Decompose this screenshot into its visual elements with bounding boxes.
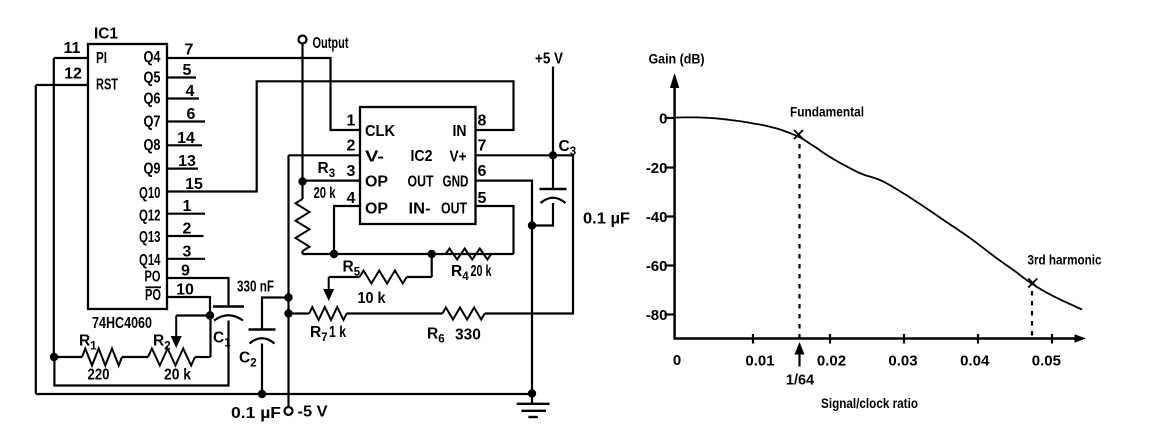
- wire R7 left lead: [289, 312, 310, 314]
- wire IC2 pin2 V- to rail: [289, 154, 361, 156]
- svg-text:Q14: Q14: [139, 252, 161, 269]
- capacitor C3: [540, 188, 567, 191]
- svg-text:3: 3: [183, 243, 192, 260]
- svg-text:OP: OP: [365, 201, 388, 218]
- R2 wiper arrow: [175, 316, 177, 338]
- fundamental X marker: [794, 130, 803, 139]
- svg-text:3: 3: [570, 146, 576, 158]
- 1/64 arrow: [798, 353, 800, 367]
- svg-text:0: 0: [673, 352, 681, 369]
- gain response curve: [675, 117, 1082, 309]
- y tick -80: [665, 313, 676, 315]
- wire C1 bottom loop to R1: [54, 321, 228, 386]
- wire C2 bottom: [261, 344, 263, 395]
- svg-text:IC1: IC1: [94, 26, 118, 43]
- svg-text:6: 6: [438, 334, 444, 346]
- fundamental dashed line: [798, 144, 800, 338]
- y tick -40: [665, 215, 676, 217]
- y tick 0: [665, 117, 676, 119]
- svg-text:7: 7: [185, 41, 194, 58]
- svg-text:-40: -40: [646, 209, 668, 226]
- wire pin 12 to IC1 RST: [36, 84, 88, 86]
- svg-text:2: 2: [250, 358, 256, 370]
- IC1 pin 1 stub (Q12): [167, 213, 205, 215]
- svg-text:Fundamental: Fundamental: [790, 104, 864, 120]
- node pin4 junction: [330, 250, 338, 258]
- wire C3 top lead: [552, 155, 554, 189]
- wire R5 right lead: [431, 254, 433, 277]
- svg-text:OP: OP: [365, 174, 388, 191]
- svg-text:74HC4060: 74HC4060: [92, 315, 152, 332]
- IC1 pin 3 stub (Q14): [167, 258, 205, 260]
- svg-text:0.05: 0.05: [1032, 352, 1061, 369]
- x tick 0.01: [752, 334, 754, 344]
- svg-text:8: 8: [478, 112, 487, 129]
- svg-text:2: 2: [164, 341, 170, 353]
- svg-text:1: 1: [90, 341, 97, 353]
- resistor R4: [446, 249, 492, 260]
- svg-text:V+: V+: [450, 148, 467, 165]
- wire R1 left lead: [54, 356, 82, 358]
- svg-text:OUT: OUT: [441, 201, 467, 218]
- R7 wiper arrow: [328, 277, 330, 290]
- svg-text:C: C: [239, 350, 250, 367]
- svg-text:RST: RST: [96, 77, 118, 94]
- svg-text:Q10: Q10: [139, 185, 161, 202]
- svg-text:IN: IN: [453, 123, 467, 140]
- svg-text:2: 2: [183, 221, 192, 238]
- svg-text:C: C: [213, 330, 224, 347]
- x tick 0.04: [977, 334, 979, 344]
- svg-text:R: R: [79, 333, 90, 350]
- svg-text:-20: -20: [646, 160, 668, 177]
- svg-text:+5 V: +5 V: [535, 51, 564, 68]
- svg-text:-60: -60: [646, 258, 668, 275]
- wire V- rail vertical: [287, 155, 289, 407]
- node R5 junction: [428, 250, 436, 258]
- IC1 pin 13 stub (Q9): [167, 168, 198, 170]
- svg-text:Q13: Q13: [139, 229, 161, 246]
- y tick -60: [665, 264, 676, 266]
- svg-text:6: 6: [187, 106, 196, 123]
- wire R7 to R6: [347, 312, 443, 314]
- capacitor C2: [249, 328, 276, 331]
- svg-text:3rd harmonic: 3rd harmonic: [1028, 252, 1102, 268]
- svg-text:C: C: [559, 138, 570, 155]
- svg-text:Q7: Q7: [144, 114, 161, 131]
- wire R4 to pin5 vertical: [476, 206, 514, 254]
- output terminal circle: [299, 36, 307, 44]
- wire IC2 pin3 OP: [303, 180, 361, 182]
- svg-text:2: 2: [347, 138, 356, 155]
- node C2 tap on V- rail: [284, 293, 292, 301]
- wire output down to OP node: [301, 44, 303, 181]
- svg-text:PO: PO: [145, 269, 161, 286]
- svg-text:Signal/clock ratio: Signal/clock ratio: [821, 395, 918, 411]
- svg-text:0: 0: [659, 110, 667, 127]
- svg-text:IN-: IN-: [409, 201, 431, 218]
- svg-text:-80: -80: [646, 307, 668, 324]
- resistor R1: [82, 349, 122, 366]
- svg-text:11: 11: [64, 40, 81, 57]
- wire R1-R2: [122, 356, 148, 358]
- wire R3 leads: [301, 181, 303, 199]
- svg-text:GND: GND: [443, 174, 469, 191]
- wire OP node line: [303, 253, 514, 255]
- node output/R3/pin3: [298, 177, 306, 185]
- svg-text:14: 14: [177, 130, 195, 147]
- svg-text:R: R: [318, 160, 329, 177]
- resistor R5: [360, 271, 407, 284]
- svg-text:PO: PO: [145, 287, 161, 304]
- svg-text:Q6: Q6: [144, 91, 161, 108]
- node R7 tap on V- rail: [284, 309, 292, 317]
- svg-text:Q4: Q4: [144, 49, 161, 66]
- svg-text:4: 4: [462, 271, 469, 283]
- IC1 pin 2 stub (Q13): [167, 235, 204, 237]
- svg-text:V-: V-: [365, 148, 384, 165]
- node C2 on ground rail: [258, 390, 266, 398]
- svg-text:0.04: 0.04: [960, 352, 990, 369]
- svg-text:7: 7: [478, 138, 487, 155]
- svg-text:0.03: 0.03: [888, 352, 917, 369]
- svg-text:5: 5: [183, 62, 192, 79]
- node pin10/R2/wiper junction: [206, 311, 214, 319]
- 3rd harmonic X marker: [1028, 279, 1037, 288]
- wire IC2 pin4 OP down: [334, 206, 360, 254]
- svg-text:1 k: 1 k: [329, 324, 346, 341]
- IC2 filter box: [360, 107, 476, 224]
- svg-text:20 k: 20 k: [471, 263, 492, 280]
- y tick -20: [665, 166, 676, 168]
- resistor R3: [296, 199, 310, 251]
- x tick 0.05: [1051, 334, 1053, 344]
- IC1 pin 6 stub (Q7): [167, 120, 205, 122]
- svg-text:330: 330: [455, 327, 481, 344]
- wire C2 top link: [262, 298, 289, 330]
- svg-text:0.01: 0.01: [745, 352, 774, 369]
- wire pin 12 feedback vertical: [35, 85, 37, 394]
- capacitor C1: [213, 305, 244, 308]
- svg-text:R: R: [451, 263, 462, 280]
- svg-text:0.1 µF: 0.1 µF: [231, 405, 281, 422]
- x tick 0.03: [903, 334, 905, 344]
- svg-text:1: 1: [347, 112, 356, 129]
- svg-text:IC2: IC2: [411, 148, 433, 165]
- svg-text:0.02: 0.02: [817, 352, 846, 369]
- wire +5V down: [552, 67, 554, 156]
- svg-text:12: 12: [64, 65, 82, 82]
- svg-text:7: 7: [321, 332, 327, 344]
- svg-text:0.1 µF: 0.1 µF: [583, 211, 630, 228]
- node C3 return on GND line: [528, 221, 536, 229]
- 3rd harmonic dashed line: [1031, 291, 1033, 338]
- wire R2 right to node: [209, 316, 211, 358]
- svg-text:330 nF: 330 nF: [237, 279, 274, 296]
- svg-text:10 k: 10 k: [358, 290, 386, 307]
- wire pin 11 to IC1 PI: [54, 57, 88, 59]
- svg-text:R: R: [427, 326, 438, 343]
- svg-text:6: 6: [478, 163, 487, 180]
- svg-text:4: 4: [347, 190, 356, 207]
- wire pin 11 feedback vertical: [53, 58, 55, 357]
- node V+ C3 junction: [549, 151, 557, 159]
- svg-text:PI: PI: [96, 50, 107, 67]
- svg-text:Q8: Q8: [144, 137, 161, 154]
- wire wiper arm of R2: [176, 314, 210, 316]
- svg-text:5: 5: [478, 190, 487, 207]
- IC1 pin 14 stub (Q8): [167, 144, 202, 146]
- resistor R2 (trimmer): [148, 349, 195, 366]
- svg-text:4: 4: [186, 83, 195, 100]
- chart x-axis: [674, 337, 1078, 340]
- svg-text:Q12: Q12: [139, 208, 161, 225]
- svg-text:Gain (dB): Gain (dB): [649, 51, 705, 67]
- IC1 pin 5 stub (Q5): [167, 76, 196, 78]
- node ground junction: [528, 389, 536, 397]
- svg-text:1/64: 1/64: [786, 373, 814, 389]
- svg-text:Output: Output: [313, 35, 349, 52]
- wire R5 left to wiper: [329, 276, 360, 278]
- IC1 pin 4 stub (Q6): [167, 97, 199, 99]
- resistor R6: [442, 308, 484, 320]
- wire pin 9 to C1: [167, 278, 229, 307]
- svg-text:R: R: [310, 324, 321, 341]
- svg-text:3: 3: [329, 168, 335, 180]
- wire ground rail: [36, 393, 532, 395]
- svg-text:13: 13: [178, 153, 196, 170]
- wire IC2 pin7 V+: [476, 154, 554, 156]
- svg-text:Q9: Q9: [144, 161, 161, 178]
- svg-text:20 k: 20 k: [164, 367, 191, 384]
- svg-text:CLK: CLK: [365, 123, 396, 140]
- wire IC2 pin6 GND down: [476, 181, 533, 394]
- node R1 left junction: [50, 353, 58, 361]
- svg-text:-5 V: -5 V: [298, 404, 329, 421]
- -5V terminal circle: [285, 407, 293, 415]
- svg-text:R: R: [343, 259, 354, 276]
- svg-text:1: 1: [183, 198, 192, 215]
- ground symbol: [531, 394, 533, 404]
- resistor R7: [309, 307, 346, 320]
- svg-text:Q5: Q5: [144, 70, 161, 87]
- svg-text:OUT: OUT: [408, 174, 434, 191]
- chart y-axis: [673, 82, 676, 340]
- x tick 0.02: [829, 334, 831, 344]
- svg-text:R: R: [153, 333, 164, 350]
- IC1 74HC4060 counter box: [88, 44, 167, 309]
- wire Q10 pin15 to IC2 IN: [167, 81, 514, 191]
- wire C3 bottom to GND line: [532, 203, 553, 226]
- svg-text:3: 3: [347, 163, 356, 180]
- svg-text:20 k: 20 k: [314, 185, 336, 202]
- wire pin 10 down to R2 node: [167, 297, 210, 316]
- wire R6 right up to +5V node: [485, 155, 573, 313]
- svg-text:220: 220: [88, 367, 110, 384]
- wire Q4 pin7 to IC2 CLK: [167, 58, 360, 130]
